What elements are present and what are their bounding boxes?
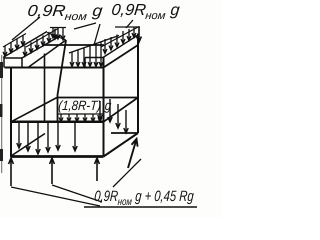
leader right label to right wall <box>126 20 133 28</box>
hull left top receding edge <box>28 40 66 68</box>
label bottom 0,9Rnom g + 0,45 Rg <box>94 187 195 207</box>
leader bottom label to rear-right reaction <box>113 159 141 187</box>
left wall top right edge load row <box>21 29 61 59</box>
right wall right edge load row <box>101 27 140 54</box>
hold load arrows right bay <box>98 99 128 133</box>
bottom reaction arrow mid-left <box>50 158 55 184</box>
scan smudge top <box>0 62 3 78</box>
left wall front face <box>4 58 22 68</box>
svg-text:0,9Rном g: 0,9Rном g <box>26 2 104 23</box>
bottom left receding edge <box>11 134 45 157</box>
label middle (1,8R-T)g <box>58 98 112 113</box>
bottom front edge <box>11 155 104 158</box>
right wall top right edge <box>103 35 138 58</box>
hull rear-left column <box>44 54 46 122</box>
scan smudge middle <box>0 104 3 117</box>
label top-right 0,9Rnom g <box>110 1 180 22</box>
hull rear-right column <box>137 34 139 134</box>
leader bottom label from left reaction <box>11 187 100 206</box>
hull rear-left inner column <box>58 40 67 122</box>
right wall front face <box>85 58 104 68</box>
leader left label to rear edge <box>94 24 100 45</box>
deck front edge <box>11 121 104 124</box>
hull front-left column <box>10 68 12 158</box>
hull right top receding edge <box>104 45 139 68</box>
deck left receding edge <box>11 98 57 122</box>
deck rear edge <box>57 97 138 99</box>
scan edge line <box>1 55 2 173</box>
left wall rear edge load row <box>47 28 66 41</box>
bottom label underline <box>84 206 197 208</box>
bottom right receding edge <box>104 133 139 157</box>
label top-left 0,9Rnom g <box>26 2 104 23</box>
leader bottom label from mid reaction <box>52 185 102 202</box>
leader left label to left wall <box>12 17 40 40</box>
right wall front row onto hull edge <box>70 42 103 67</box>
scan smudge bottom <box>0 149 3 161</box>
bottom reaction arrow mid-right <box>95 158 100 181</box>
right wall corner arrow bold <box>137 27 142 42</box>
deck right receding edge <box>104 98 139 122</box>
bottom reaction arrow left <box>9 158 14 186</box>
hold load arrows left bay <box>17 123 77 154</box>
bottom reaction arrow rear-right <box>128 139 138 168</box>
leader left label to left wall rear <box>74 23 96 29</box>
hull front-right column <box>103 57 105 157</box>
hull rear top edge <box>42 44 104 46</box>
deck load tails line <box>57 113 103 115</box>
hull front top edge <box>5 67 105 69</box>
svg-text:0,9Rном g + 0,45 Rg: 0,9Rном g + 0,45 Rg <box>94 187 195 207</box>
svg-text:0,9Rном g: 0,9Rном g <box>110 1 180 22</box>
right wall left slope line <box>69 36 119 54</box>
left wall top left edge load row <box>3 32 47 58</box>
bottom rear edge <box>111 132 138 134</box>
deck load front row arrows <box>59 114 102 122</box>
